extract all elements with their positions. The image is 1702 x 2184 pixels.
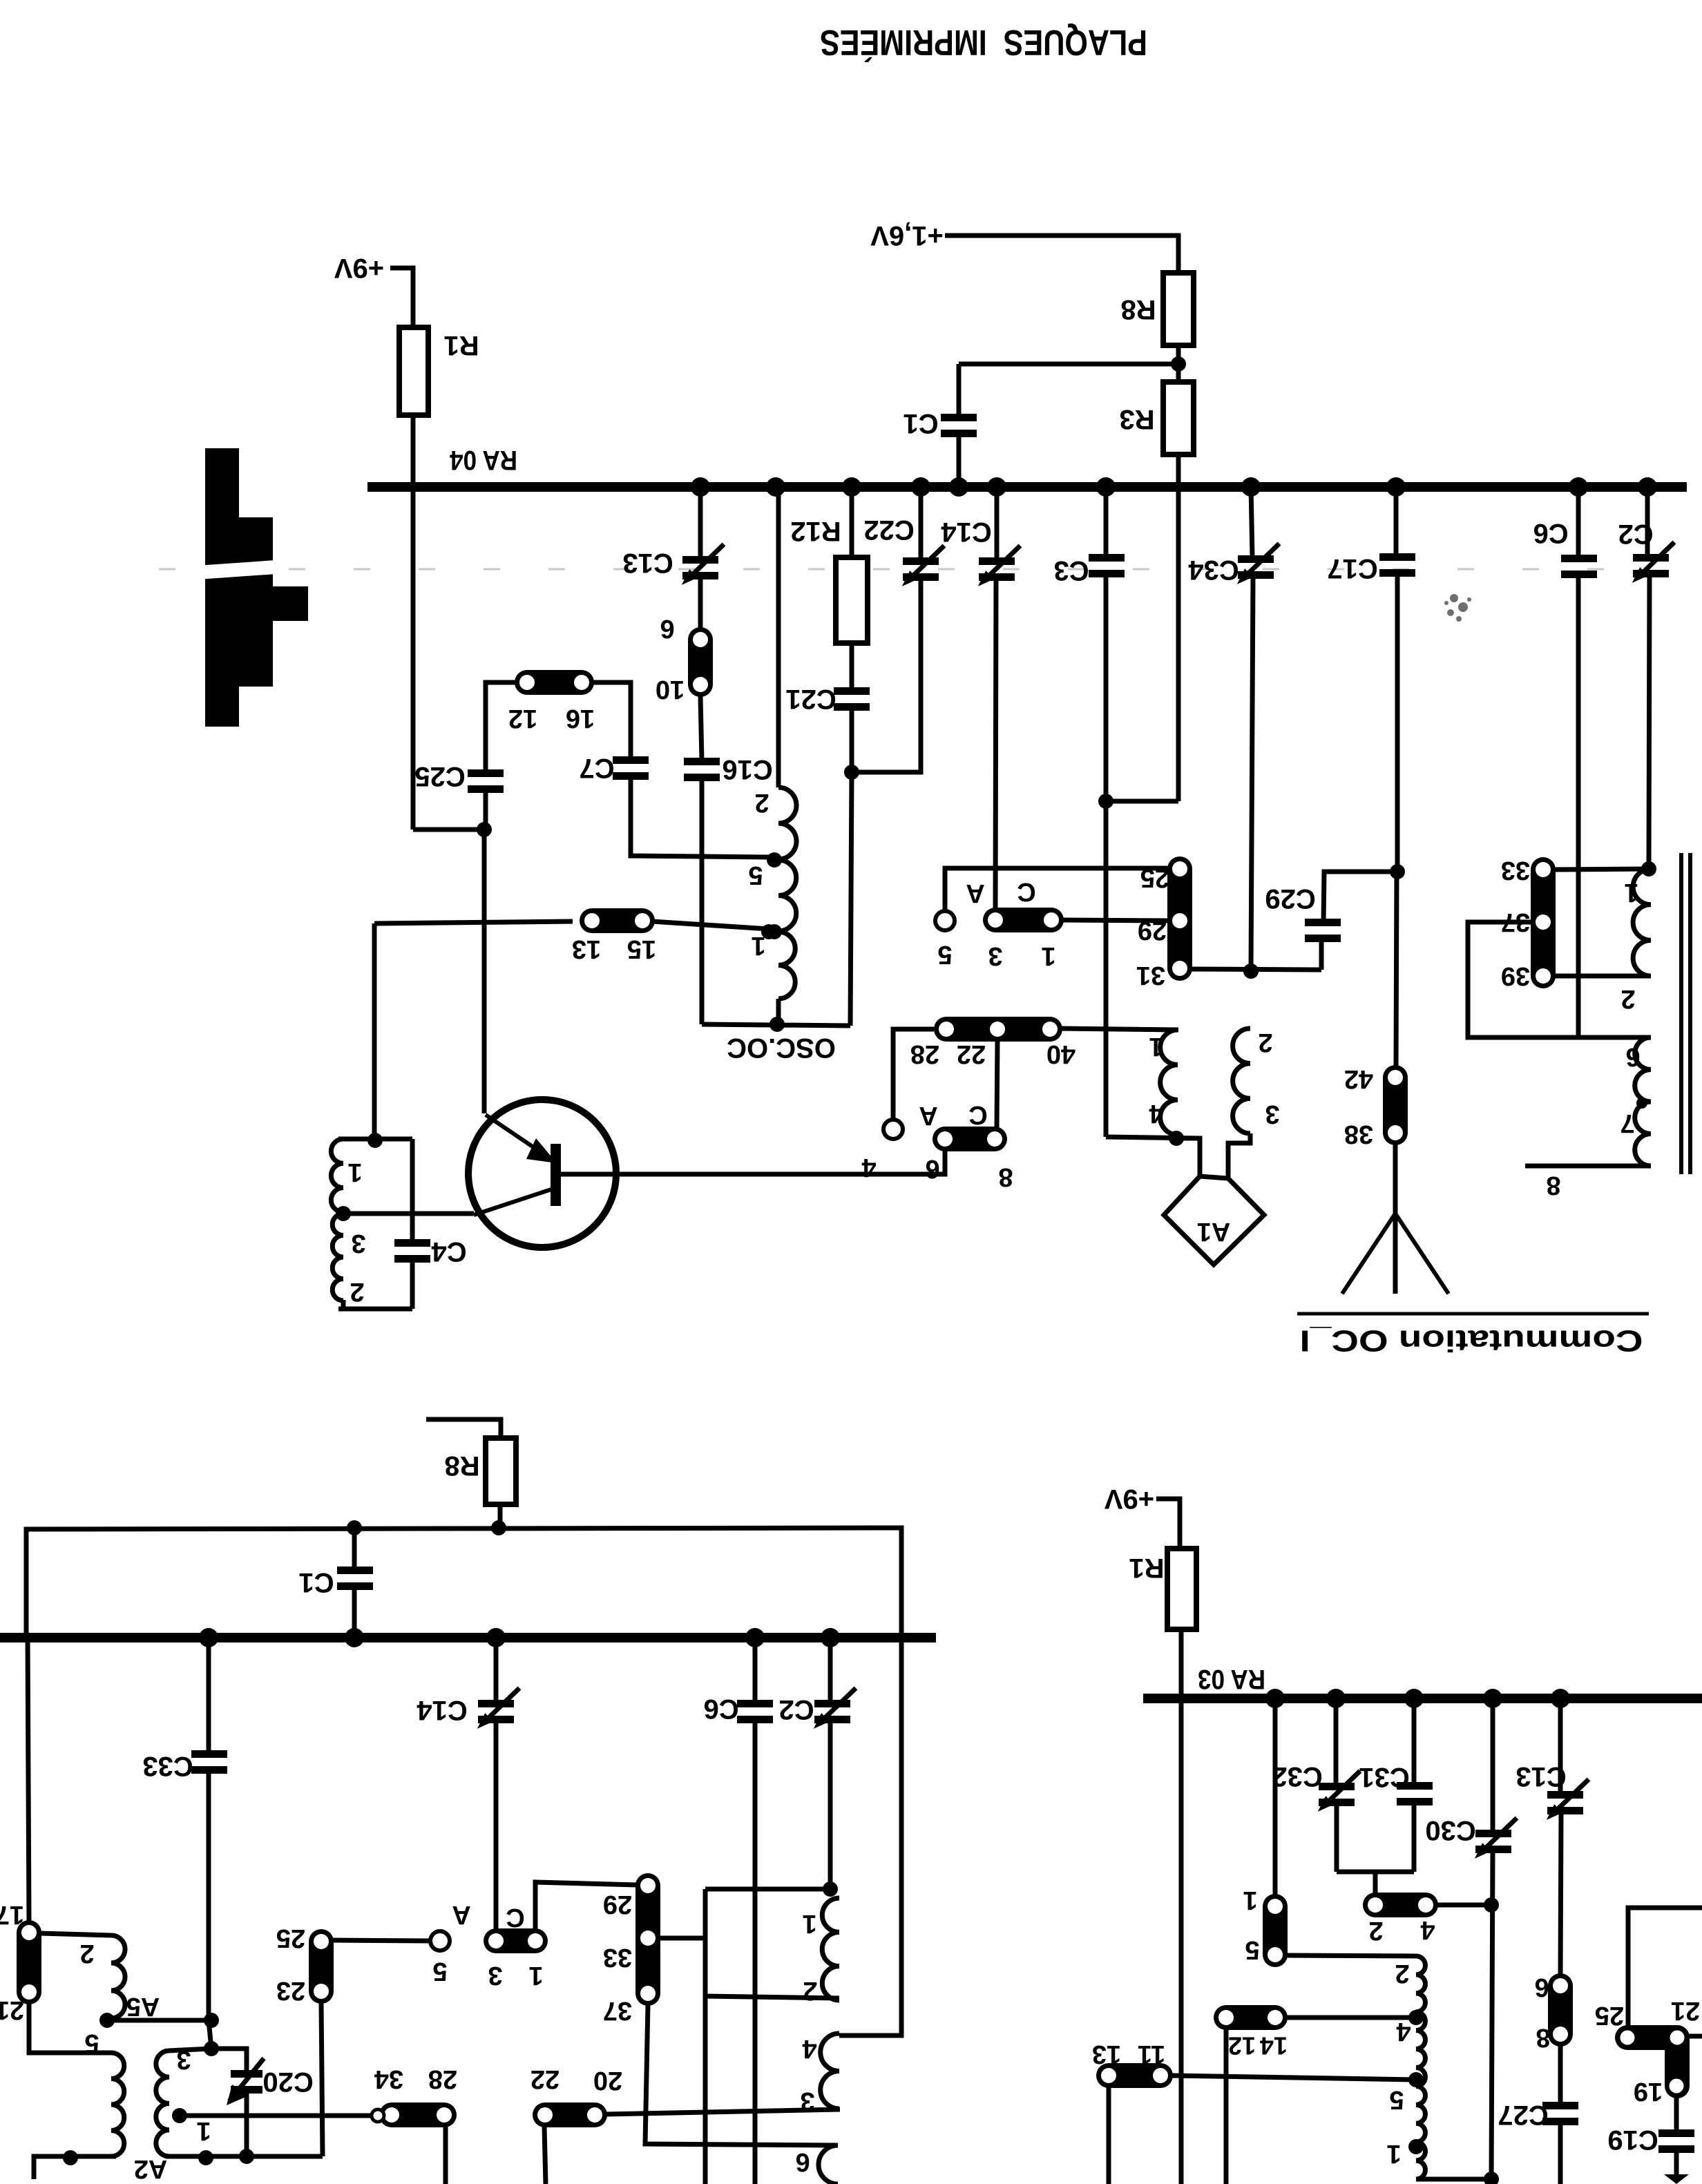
svg-text:5: 5 xyxy=(432,1957,447,1986)
svg-text:R1: R1 xyxy=(443,330,479,361)
svg-text:8: 8 xyxy=(1546,1171,1560,1200)
svg-text:C2: C2 xyxy=(1618,519,1653,549)
svg-text:C17: C17 xyxy=(1327,553,1377,584)
svg-text:1: 1 xyxy=(196,2116,211,2145)
svg-text:R8: R8 xyxy=(1120,294,1156,325)
svg-text:10: 10 xyxy=(656,675,685,704)
svg-text:C6: C6 xyxy=(703,1694,738,1724)
svg-text:33: 33 xyxy=(1501,856,1530,885)
svg-text:1: 1 xyxy=(1624,878,1638,907)
svg-text:2: 2 xyxy=(1620,984,1635,1013)
svg-text:4: 4 xyxy=(802,2034,816,2063)
svg-text:C16: C16 xyxy=(722,754,772,785)
svg-text:29: 29 xyxy=(1138,916,1167,945)
svg-text:+1,6V: +1,6V xyxy=(870,220,944,251)
svg-text:6: 6 xyxy=(1534,1973,1549,2002)
svg-text:34: 34 xyxy=(374,2065,403,2094)
svg-text:RA 03: RA 03 xyxy=(1198,1664,1265,1694)
svg-text:C1: C1 xyxy=(903,408,938,439)
svg-text:29: 29 xyxy=(603,1890,632,1919)
svg-text:Commutation OC_I: Commutation OC_I xyxy=(1300,1324,1643,1358)
svg-text:A5: A5 xyxy=(126,1992,160,2021)
svg-text:4: 4 xyxy=(1149,1099,1163,1128)
svg-text:C21: C21 xyxy=(785,684,836,714)
svg-text:5: 5 xyxy=(748,861,763,890)
svg-text:42: 42 xyxy=(1344,1064,1373,1093)
svg-text:6: 6 xyxy=(660,614,674,643)
svg-text:4: 4 xyxy=(1396,2017,1411,2046)
svg-text:11: 11 xyxy=(1138,2040,1165,2069)
svg-text:2: 2 xyxy=(803,1976,817,2005)
svg-text:RA 04: RA 04 xyxy=(449,445,517,475)
svg-text:1: 1 xyxy=(528,1961,543,1990)
svg-text:4: 4 xyxy=(1420,1915,1435,1944)
svg-text:12: 12 xyxy=(1228,2032,1256,2060)
svg-text:C27: C27 xyxy=(1498,2100,1548,2130)
svg-text:4: 4 xyxy=(861,1153,876,1182)
svg-text:6: 6 xyxy=(795,2147,810,2176)
svg-text:C14: C14 xyxy=(417,1695,468,1725)
svg-text:2: 2 xyxy=(1258,1028,1272,1057)
svg-text:A1: A1 xyxy=(1197,1217,1231,1246)
svg-text:R3: R3 xyxy=(1119,404,1154,434)
svg-text:17: 17 xyxy=(0,1900,24,1929)
svg-text:PLAQUES IMPRIMÉES: PLAQUES IMPRIMÉES xyxy=(820,22,1147,62)
svg-text:1: 1 xyxy=(1243,1886,1257,1915)
svg-text:3: 3 xyxy=(176,2045,191,2074)
svg-text:C25: C25 xyxy=(414,761,465,792)
svg-text:7: 7 xyxy=(1620,1109,1634,1138)
svg-text:C7: C7 xyxy=(579,753,614,783)
svg-text:+9V: +9V xyxy=(1105,1484,1155,1514)
svg-text:C1: C1 xyxy=(298,1567,334,1598)
svg-text:C31: C31 xyxy=(1359,1762,1409,1792)
svg-text:23: 23 xyxy=(276,1976,305,2005)
svg-text:A2: A2 xyxy=(134,2154,168,2183)
svg-text:8: 8 xyxy=(1536,2023,1550,2052)
svg-text:2: 2 xyxy=(754,788,769,817)
svg-text:1: 1 xyxy=(1041,941,1055,970)
svg-text:6: 6 xyxy=(1625,1042,1640,1071)
svg-text:C20: C20 xyxy=(262,2067,313,2097)
svg-text:40: 40 xyxy=(1046,1040,1075,1069)
svg-text:OSC.OC: OSC.OC xyxy=(727,1033,836,1063)
svg-text:21: 21 xyxy=(1671,1996,1700,2025)
svg-text:14: 14 xyxy=(1260,2032,1288,2060)
svg-text:A: A xyxy=(452,1900,470,1929)
svg-text:5: 5 xyxy=(1245,1935,1259,1964)
svg-text:A: A xyxy=(966,879,984,908)
svg-text:33: 33 xyxy=(603,1943,632,1972)
svg-text:3: 3 xyxy=(488,1961,502,1990)
svg-text:C2: C2 xyxy=(778,1694,814,1725)
svg-text:3: 3 xyxy=(1265,1100,1279,1129)
svg-text:16: 16 xyxy=(566,704,595,733)
svg-text:C: C xyxy=(968,1100,987,1129)
svg-text:C19: C19 xyxy=(1607,2125,1658,2155)
svg-text:25: 25 xyxy=(1595,2001,1624,2030)
svg-text:8: 8 xyxy=(998,1162,1013,1191)
svg-text:1: 1 xyxy=(347,1158,362,1187)
svg-text:15: 15 xyxy=(627,935,656,964)
svg-text:C32: C32 xyxy=(1272,1761,1322,1792)
svg-text:3: 3 xyxy=(988,941,1002,970)
svg-text:C13: C13 xyxy=(622,548,673,578)
svg-text:5: 5 xyxy=(937,940,952,969)
svg-text:39: 39 xyxy=(1501,961,1530,990)
svg-text:21: 21 xyxy=(0,1995,24,2024)
svg-text:25: 25 xyxy=(1140,863,1169,892)
svg-text:C14: C14 xyxy=(941,517,992,547)
svg-text:19: 19 xyxy=(1634,2077,1663,2106)
svg-text:R8: R8 xyxy=(444,1450,479,1481)
svg-text:1: 1 xyxy=(802,1909,816,1938)
svg-text:20: 20 xyxy=(593,2066,622,2095)
svg-text:38: 38 xyxy=(1344,1120,1373,1149)
svg-text:28: 28 xyxy=(910,1040,939,1069)
svg-text:C4: C4 xyxy=(431,1236,467,1267)
svg-text:3: 3 xyxy=(351,1229,365,1258)
svg-text:13: 13 xyxy=(1092,2040,1121,2069)
svg-text:2: 2 xyxy=(79,1939,94,1968)
svg-text:13: 13 xyxy=(572,935,601,964)
svg-text:25: 25 xyxy=(276,1924,305,1953)
svg-text:2: 2 xyxy=(1395,1959,1409,1988)
svg-text:12: 12 xyxy=(508,704,537,733)
svg-text:+9V: +9V xyxy=(334,253,385,283)
svg-text:C22: C22 xyxy=(863,515,914,545)
svg-text:C29: C29 xyxy=(1265,883,1315,914)
svg-text:37: 37 xyxy=(603,1996,632,2025)
svg-text:C33: C33 xyxy=(142,1751,193,1781)
svg-text:6: 6 xyxy=(925,1154,939,1183)
svg-text:R12: R12 xyxy=(790,516,841,546)
svg-text:C: C xyxy=(1017,877,1035,906)
svg-text:C13: C13 xyxy=(1515,1761,1566,1792)
svg-text:R1: R1 xyxy=(1129,1553,1164,1583)
svg-text:22: 22 xyxy=(530,2065,560,2094)
svg-text:C6: C6 xyxy=(1533,518,1568,548)
svg-text:C: C xyxy=(506,1903,524,1932)
svg-text:28: 28 xyxy=(428,2065,457,2094)
svg-text:C30: C30 xyxy=(1425,1815,1475,1846)
svg-text:2: 2 xyxy=(350,1277,364,1306)
svg-text:2: 2 xyxy=(1368,1916,1383,1945)
svg-text:5: 5 xyxy=(1389,2085,1404,2114)
svg-text:C3: C3 xyxy=(1053,555,1089,586)
svg-text:1: 1 xyxy=(1149,1032,1163,1061)
svg-text:A: A xyxy=(919,1101,937,1130)
svg-text:22: 22 xyxy=(957,1040,986,1069)
svg-text:C34: C34 xyxy=(1188,555,1239,585)
svg-text:31: 31 xyxy=(1136,961,1165,990)
svg-text:1: 1 xyxy=(1386,2139,1401,2168)
